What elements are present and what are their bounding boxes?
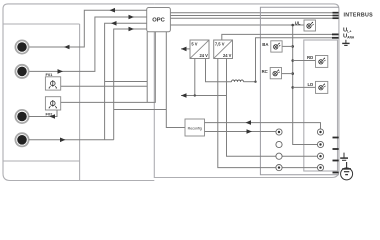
wire 7.5V second output down to row3	[227, 59, 318, 157]
socket circle right column 2	[317, 141, 323, 147]
svg-text:INTERBUS: INTERBUS	[344, 12, 374, 18]
socket circle left column 1	[276, 129, 282, 135]
wire OPC stub down	[146, 32, 148, 103]
arrow on 24V rail	[181, 93, 187, 98]
wire bus line 4 to UL rail	[170, 24, 304, 26]
arrow on connector 4 wire	[60, 138, 66, 143]
housing left section	[3, 4, 154, 181]
reconfig box	[185, 119, 205, 136]
junction dot RD	[291, 59, 294, 62]
connector circle 2	[15, 65, 28, 78]
junction dot RC	[291, 72, 294, 75]
LED box RC	[270, 68, 281, 79]
wire RD	[293, 60, 316, 62]
svg-text:7,5 V: 7,5 V	[215, 41, 225, 46]
wire connector 4 to reconfig net	[29, 139, 114, 141]
terminal bars INTERBUS	[333, 13, 339, 19]
wire LD	[293, 86, 316, 88]
wire OPC left 4	[114, 29, 147, 140]
junction dot BA	[291, 45, 294, 48]
inner rect right block	[304, 40, 338, 171]
wire OPC left 2	[29, 17, 147, 71]
socket circle right column 1	[317, 129, 323, 135]
LED box BA	[271, 41, 282, 52]
arrow into OPC wire 4	[129, 27, 135, 32]
svg-text:RD: RD	[307, 55, 313, 60]
svg-text:5 V: 5 V	[191, 41, 197, 46]
svg-text:Reconfig: Reconfig	[188, 126, 202, 130]
wire 5V output left arrow	[181, 48, 190, 50]
wire 24V rail with left arrow	[181, 95, 227, 97]
wire F02 output	[61, 32, 156, 103]
inductor L1	[232, 80, 244, 82]
wire bus line 2	[170, 15, 334, 17]
arrow to connector 1	[64, 45, 70, 50]
junction dot UL	[291, 24, 294, 27]
connector block outline	[260, 7, 339, 175]
wire reconfig out 2	[205, 131, 276, 133]
ground symbol near UANA	[342, 40, 349, 46]
housing right section	[154, 4, 339, 178]
fiber optic module F02	[45, 97, 60, 110]
wire F02 to connector 3	[29, 110, 57, 117]
svg-text:UL: UL	[295, 20, 301, 25]
connector circle 4	[15, 133, 28, 146]
LED box LD	[316, 81, 328, 93]
terminal bars UL+ UANA	[332, 34, 339, 37]
svg-text:RC: RC	[262, 69, 268, 74]
wire F01 output	[61, 85, 148, 87]
connector circle 3	[15, 110, 28, 123]
converter U2 5V/24V	[190, 40, 209, 59]
wire reconfig branch	[114, 109, 167, 111]
LED rail vertical	[293, 25, 318, 145]
wire inductor to UANA rail	[244, 81, 256, 83]
svg-text:UL+: UL+	[343, 27, 351, 33]
arrow on reconfig out 2	[247, 129, 253, 134]
left panel top separator	[3, 23, 80, 25]
wire bus line 3	[170, 17, 334, 19]
left panel bottom separator	[3, 160, 80, 162]
svg-text:BA: BA	[262, 42, 268, 47]
terminal bars lower	[333, 138, 339, 173]
LED box UL	[304, 20, 316, 31]
socket circle right column 4	[317, 165, 323, 171]
fiber optic module F01	[45, 77, 60, 90]
wire OPC left 3	[105, 23, 147, 140]
arrow to connector 3	[50, 114, 56, 119]
arrow on connector 2 wire	[58, 69, 64, 74]
svg-text:24 V: 24 V	[199, 53, 208, 58]
OPC box U1	[147, 8, 171, 32]
arrow into OPC wire 2	[129, 15, 135, 20]
LED box RD	[316, 56, 328, 68]
socket circle left column 3 open	[276, 153, 282, 159]
earth ground symbol with circle	[341, 162, 353, 180]
socket circle left column 2 open	[276, 141, 282, 147]
connector circle 1	[15, 40, 28, 53]
socket circle right column 3	[317, 153, 323, 159]
wire UL+ supply	[222, 34, 336, 40]
wire 5V bottom rail	[194, 59, 196, 96]
svg-text:UANA: UANA	[343, 34, 355, 40]
junction dot 5V rail	[194, 94, 196, 96]
arrow on reconfig out 1	[246, 120, 252, 125]
wire RC	[282, 73, 293, 75]
wire OPC left 1	[29, 10, 147, 47]
wire bus line 1	[170, 12, 334, 14]
converter U3 7.5V/24V	[214, 40, 233, 59]
arrow on OPC wire 3	[111, 21, 117, 26]
wire UANA supply	[256, 38, 337, 82]
wire OPC to reconfig	[166, 32, 185, 128]
wire 5V to inductor	[206, 59, 232, 82]
svg-text:F01: F01	[46, 72, 54, 77]
wire reconfig out 1	[205, 123, 321, 129]
wire 7.5V down to bottom row	[218, 59, 318, 168]
wire OPC wire3 branch	[105, 81, 148, 83]
wire BA	[282, 45, 293, 47]
svg-text:LD: LD	[307, 82, 313, 87]
svg-text:24 V: 24 V	[223, 53, 232, 58]
left panel divider	[79, 24, 81, 180]
svg-text:OPC: OPC	[152, 18, 165, 24]
chassis ground symbol	[340, 153, 348, 161]
junction dot LD	[291, 86, 294, 89]
socket circle left column 4	[276, 165, 282, 171]
arrow on OPC wire 1	[110, 8, 116, 13]
